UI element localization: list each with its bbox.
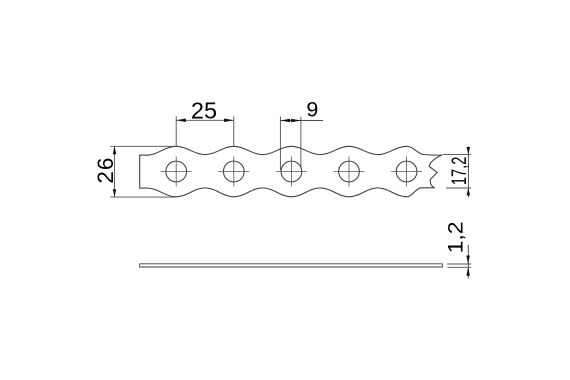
dimension 25: right arrow (224, 119, 234, 123)
svg-text:17,2: 17,2 (448, 157, 471, 186)
dimension 26: bottom arrow (113, 189, 117, 197)
hole 1 crosshair (161, 157, 192, 187)
svg-text:26: 26 (93, 158, 118, 184)
hole 2 (223, 161, 244, 182)
dimension 9: left arrow (280, 119, 290, 123)
strip outline (top view) (140, 146, 442, 197)
dimension 9: dimension line (280, 120, 323, 122)
hole 3 crosshair (276, 157, 307, 187)
svg-text:25: 25 (191, 98, 217, 124)
dimension 9: right arrow (291, 119, 301, 123)
svg-text:1,2: 1,2 (445, 221, 468, 253)
dimension 17,2: extension lines (443, 154, 472, 188)
hole 2 crosshair (218, 157, 249, 187)
dimension 25: dimension line (176, 119, 234, 121)
dimension 26: top arrow (113, 146, 117, 154)
dimension 26: extension lines (110, 146, 177, 197)
hole 4 (339, 161, 360, 182)
dimension 1,2: extension lines (447, 264, 471, 267)
hole 4 crosshair (334, 157, 365, 187)
hole 3 (281, 161, 302, 182)
svg-text:9: 9 (306, 98, 318, 122)
dimension 25: left arrow (176, 119, 186, 123)
dimension 17,2: dimension line (467, 147, 469, 198)
side view strip (140, 264, 443, 267)
dimension 1,2: dimension line (467, 245, 469, 278)
hole 5 (396, 161, 417, 182)
dimension 1,2: top arrow (outside, pointing down) (466, 256, 470, 265)
dimension 9: extension lines (280, 117, 301, 171)
dimension 1,2: bottom arrow (outside, pointing up) (466, 267, 470, 276)
dimension 17,2: bottom arrow (outside, pointing up) (467, 188, 471, 195)
hole 1 (166, 161, 187, 182)
dimension 25: extension lines (176, 116, 234, 146)
dimension 26: dimension line (114, 146, 116, 197)
hole 5 crosshair (391, 157, 422, 187)
dimension 17,2: top arrow (outside, pointing down) (467, 147, 471, 154)
